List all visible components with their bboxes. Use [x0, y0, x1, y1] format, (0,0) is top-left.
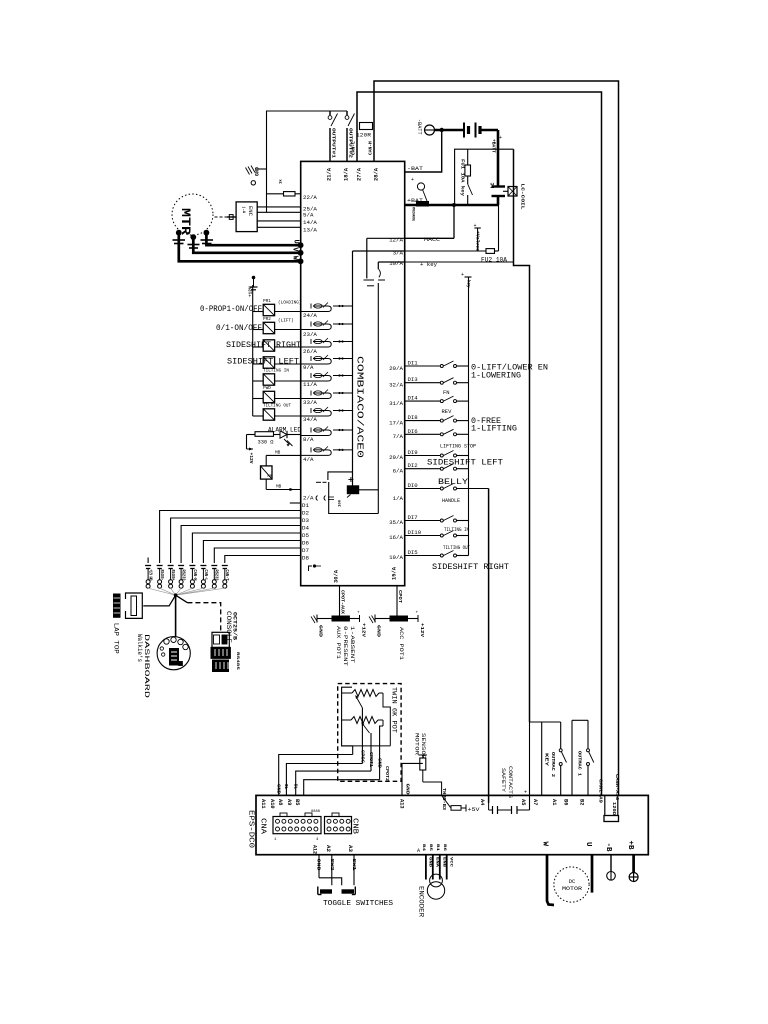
svg-text:+Valves: +Valves: [475, 231, 481, 251]
svg-text:-BATT: -BATT: [416, 119, 422, 135]
svg-text:ALARM LED: ALARM LED: [268, 427, 301, 434]
svg-text:-BAT: -BAT: [407, 165, 424, 172]
contactor LC main contacts: [492, 185, 506, 187]
svg-text:B6: B6: [442, 844, 446, 852]
svg-text:D8: D8: [302, 555, 309, 562]
svg-text:10/A: 10/A: [389, 260, 403, 267]
svg-text:D7: D7: [302, 547, 309, 554]
svg-text:23/A: 23/A: [303, 331, 317, 338]
svg-text:21/A: 21/A: [327, 168, 333, 181]
svg-text:1-ABSENT: 1-ABSENT: [349, 626, 355, 664]
wire +12V to alarm: [246, 435, 248, 450]
svg-text:A11: A11: [260, 799, 266, 809]
svg-text:DI3: DI3: [408, 377, 418, 383]
motor MTR: [172, 194, 213, 235]
svg-text:+: +: [411, 177, 414, 183]
potentiometer ACC POT1: [390, 616, 408, 621]
wire motor V phase: [193, 239, 300, 253]
switch input box row 1: [253, 311, 264, 313]
hook mark bottom left inside: [309, 566, 313, 571]
wire ENC stub to motor: [215, 216, 228, 218]
wire 15/A to ACC pot: [396, 586, 398, 616]
wire pot right links: [383, 693, 390, 746]
wire -BATT branch to -BAT pin: [405, 130, 442, 172]
svg-text:DI6: DI6: [408, 429, 418, 435]
svg-text:CONSOLE: CONSOLE: [225, 611, 232, 643]
ground GND upper: [255, 168, 267, 170]
svg-text:RS232: RS232: [181, 570, 186, 581]
wire internal loop lower: [329, 482, 379, 514]
svg-text:26/A: 26/A: [303, 348, 317, 355]
svg-text:19/A: 19/A: [389, 554, 403, 561]
svg-text:CPOT: CPOT: [397, 590, 401, 604]
svg-text:1k: 1k: [279, 179, 284, 184]
connector LAP TOP: [114, 594, 121, 617]
resistor 330 ohm: [247, 434, 256, 436]
resistor 120R CAN termination top: [360, 123, 373, 130]
svg-text:+12V GND: +12V GND: [148, 570, 153, 581]
wire D8 to bundle: [225, 556, 301, 564]
svg-text:W: W: [541, 842, 549, 847]
svg-text:12/A: 12/A: [389, 237, 403, 244]
wire +key switch common: [468, 277, 470, 556]
svg-text:DI2: DI2: [408, 463, 418, 469]
wire LC right edge / key feed: [514, 149, 530, 722]
svg-text:FN: FN: [443, 389, 450, 396]
switch input box row 5: [253, 380, 264, 382]
svg-text:24/A: 24/A: [303, 312, 317, 319]
svg-text:TILTING IN: TILTING IN: [263, 370, 289, 374]
wire DI0 handle to safety chain: [457, 488, 489, 490]
node +Valves: [477, 228, 479, 251]
svg-text:8888: 8888: [311, 810, 320, 814]
svg-text:GND: GND: [255, 167, 261, 176]
bundle fan wires to star: [148, 588, 176, 595]
svg-text:CNB: CNB: [351, 818, 359, 834]
wiper upper: [356, 696, 363, 709]
svg-text:120R: 120R: [356, 132, 372, 139]
svg-text:SW2: SW2: [329, 859, 335, 871]
wire motor U phase: [206, 235, 300, 245]
switch DI1: [405, 365, 441, 367]
svg-text:PR2: PR2: [263, 318, 271, 322]
svg-text:MOTOR: MOTOR: [562, 885, 583, 892]
svg-text:SAFETY: SAFETY: [500, 768, 506, 793]
switch DI7: [405, 520, 441, 522]
controller COMBIACO/ACE0 box: [301, 161, 405, 585]
svg-text:CPOT-AUX: CPOT-AUX: [340, 590, 344, 615]
svg-text:1/A: 1/A: [393, 495, 404, 502]
svg-text:A1: A1: [551, 799, 557, 805]
svg-text:1-LOWERING: 1-LOWERING: [471, 371, 521, 381]
svg-text:+5V: +5V: [468, 807, 481, 813]
svg-text:FWD: FWD: [263, 387, 271, 391]
svg-text:0-PROP1-ON/OFF: 0-PROP1-ON/OFF: [200, 304, 262, 314]
potentiometer lower 6K: [351, 717, 378, 724]
wire star to dashboard: [175, 595, 177, 637]
svg-text:D6: D6: [302, 540, 309, 547]
svg-text:VCC: VCC: [449, 857, 453, 868]
svg-text:OUTMAC 1: OUTMAC 1: [577, 751, 583, 776]
svg-text:4/A: 4/A: [303, 456, 314, 463]
svg-text:+12V: +12V: [248, 453, 254, 464]
svg-text:31/A: 31/A: [389, 400, 403, 407]
svg-text:MB: MB: [268, 475, 273, 479]
svg-text:0/1-ON/OFF: 0/1-ON/OFF: [216, 323, 262, 333]
contact OUTMAC 2: [560, 722, 562, 749]
coil LC-COIL: [503, 190, 508, 192]
connector CNB: [325, 817, 352, 834]
svg-text:A4: A4: [479, 799, 485, 805]
wire pin 5/A: [257, 211, 301, 213]
svg-text:CPOT1: CPOT1: [368, 752, 372, 768]
wire thermistor to B3: [423, 782, 442, 795]
svg-text:PR1: PR1: [263, 300, 271, 304]
svg-text:A7: A7: [532, 799, 538, 805]
svg-text:SW1: SW1: [351, 859, 357, 871]
svg-text:28/A: 28/A: [374, 168, 380, 181]
precharge resistor: [417, 202, 429, 207]
svg-text:+B: +B: [626, 841, 634, 851]
wire internal 12/A branch: [366, 238, 368, 278]
svg-text:SIDESHIFT RIGHT: SIDESHIFT RIGHT: [226, 340, 301, 350]
svg-text:D2: D2: [302, 510, 309, 517]
svg-text:D4: D4: [302, 525, 309, 532]
svg-text:OUTPUT#2: OUTPUT#2: [348, 128, 352, 159]
svg-text:Walkie's: Walkie's: [136, 634, 143, 662]
svg-text:330 Ω: 330 Ω: [258, 439, 275, 446]
svg-text:CANL-A9: CANL-A9: [598, 779, 604, 803]
svg-text:35/A: 35/A: [389, 519, 403, 526]
svg-text:A3: A3: [347, 845, 353, 852]
svg-text:FU1 10A key: FU1 10A key: [460, 159, 466, 196]
switch input box row 3: [253, 346, 264, 348]
resistor on pin 22/A: [267, 193, 284, 195]
switch DI8: [405, 420, 441, 422]
wire key bus to A5: [529, 722, 531, 810]
svg-text:SIDESHIFT LEFT: SIDESHIFT LEFT: [427, 458, 503, 468]
svg-text:CAN-H: CAN-H: [368, 141, 374, 155]
fuse FU2 10A: [486, 249, 495, 254]
encoder wires: [425, 855, 427, 880]
svg-text:GND: GND: [405, 784, 410, 796]
wire -BATT to battery: [435, 129, 465, 132]
svg-text:CNA: CNA: [259, 818, 267, 835]
svg-text:8/A: 8/A: [303, 436, 314, 443]
resistor 120R EPS termination: [604, 795, 606, 815]
svg-text:MB: MB: [275, 451, 281, 456]
svg-text:CAN-H: CAN-H: [192, 570, 197, 581]
shield chassis mark lower: [252, 276, 256, 280]
wire 30/A to AUX pot: [339, 586, 341, 616]
wire pot outputs: [352, 746, 354, 755]
svg-text:B5: B5: [428, 844, 432, 852]
svg-text:D5: D5: [302, 532, 309, 539]
switch input box row 4: [253, 363, 264, 365]
wire aux stub bundle pin 1: [147, 558, 149, 564]
toggle switch wiring: [318, 855, 320, 878]
svg-text:U: U: [292, 240, 300, 244]
switch DI4: [405, 400, 441, 402]
svg-text:+12V: +12V: [419, 623, 425, 637]
svg-text:30/A: 30/A: [334, 570, 340, 583]
wire battery positive down: [480, 129, 498, 132]
svg-text:DI7: DI7: [408, 515, 418, 521]
wire star to laptop: [143, 595, 175, 606]
svg-text:9/A: 9/A: [303, 364, 314, 371]
svg-text:GND: GND: [428, 857, 432, 868]
svg-text:DASHBOARD: DASHBOARD: [143, 634, 150, 699]
wire 3/A valves supply: [405, 250, 486, 252]
svg-text:5/A: 5/A: [303, 212, 314, 219]
svg-text:DC: DC: [569, 878, 576, 885]
switch box MB: [266, 454, 301, 456]
svg-text:20/A: 20/A: [389, 365, 403, 372]
wire +12V common left column: [252, 285, 254, 416]
node U V W terminals: [298, 242, 304, 248]
svg-text:REV: REV: [442, 408, 453, 415]
potentiometer AUX POT1: [332, 616, 349, 621]
wire +BAT line: [405, 204, 498, 207]
shield chassis mark upper: [251, 181, 255, 185]
wire output bus to GND: [267, 111, 348, 212]
svg-text:OUTMAC 2: OUTMAC 2: [550, 752, 556, 777]
connector -BATT: [425, 125, 435, 135]
svg-text:32/A: 32/A: [389, 382, 403, 389]
svg-text:33/A: 33/A: [303, 399, 317, 406]
svg-text:A5: A5: [520, 799, 526, 805]
svg-text:34/A: 34/A: [303, 416, 317, 423]
connector CONSOLE: [212, 632, 229, 647]
wire D1 stub: [290, 502, 301, 504]
svg-text:D3: D3: [302, 517, 309, 524]
svg-text:B6: B6: [563, 799, 569, 805]
wiper lower: [362, 723, 370, 734]
svg-text:16/A: 16/A: [389, 534, 403, 541]
svg-text:ENCODER: ENCODER: [418, 886, 425, 917]
svg-text:ACC POT1: ACC POT1: [398, 627, 404, 660]
contact on pin 21/A: [329, 111, 331, 115]
svg-text:MB: MB: [276, 485, 282, 490]
connector dashboard round: [157, 637, 190, 670]
svg-text:A2: A2: [325, 845, 331, 852]
controller EPS-DC0 box: [256, 795, 648, 854]
svg-text:1-LIFTING: 1-LIFTING: [471, 424, 517, 434]
wire internal key branch from 10/A: [377, 262, 379, 269]
svg-text:CPOT2: CPOT2: [384, 766, 388, 782]
svg-text:A9: A9: [286, 799, 292, 805]
svg-text:-B: -B: [604, 843, 612, 853]
svg-text:RS485: RS485: [235, 652, 239, 671]
wire CAN-H top bus: [374, 81, 619, 795]
svg-text:CAN-T: CAN-T: [224, 570, 229, 581]
svg-text:100: 100: [339, 499, 343, 507]
motor DC MOTOR: [554, 867, 589, 902]
wire LC box outline: [455, 149, 514, 205]
svg-text:2/A: 2/A: [303, 495, 314, 502]
relay coil internal 1/A driver: [347, 486, 358, 494]
wire pin 14/A: [257, 220, 301, 222]
svg-text:SIDESHIFT LEFT: SIDESHIFT LEFT: [227, 357, 299, 367]
connector CNA: [273, 817, 321, 834]
svg-text:+ key: + key: [420, 262, 437, 268]
svg-text:|-A: |-A: [241, 206, 246, 214]
svg-text:CPOC: CPOC: [360, 750, 364, 764]
svg-text:THMO-B3: THMO-B3: [441, 788, 446, 810]
wire internal valve supply bus from 3/A: [352, 251, 354, 486]
svg-text:22/A: 22/A: [303, 194, 317, 201]
svg-text:+: +: [461, 272, 464, 278]
thermistor motor sensor: [402, 762, 423, 764]
wire pot to EPS B-pins: [279, 755, 353, 796]
dashed box TWIN 6K POT: [338, 684, 401, 782]
precharge contact MP: [417, 183, 424, 190]
wire D6 to bundle: [203, 541, 300, 564]
contact on pin 18/A: [346, 111, 348, 115]
LED alarm: [280, 431, 287, 438]
wire CAN-L top bus: [357, 92, 602, 795]
svg-text:ENA: ENA: [435, 857, 439, 868]
svg-text:A10: A10: [269, 799, 275, 809]
internal input pull-up rows: [301, 306, 332, 312]
motor terminal dots: [176, 230, 182, 236]
svg-text:DL: DL: [293, 784, 297, 790]
svg-text:TWIN 6K POT: TWIN 6K POT: [391, 687, 398, 733]
svg-text:29/A: 29/A: [389, 454, 403, 461]
encoder ENC box: [236, 202, 257, 232]
svg-text:TOGGLE SWITCHES: TOGGLE SWITCHES: [323, 900, 394, 908]
svg-text:DI5: DI5: [408, 550, 418, 556]
svg-text:18/A: 18/A: [344, 168, 350, 181]
node bundle star: [174, 593, 178, 597]
wire star to console dashed: [176, 595, 188, 603]
svg-text:7/A: 7/A: [393, 433, 404, 440]
svg-text:DI9: DI9: [408, 450, 418, 456]
svg-text:A8: A8: [277, 799, 283, 805]
svg-text:14/A: 14/A: [303, 219, 317, 226]
svg-text:KEY: KEY: [544, 753, 550, 766]
switch DI10: [405, 535, 441, 537]
svg-text:TILTING IN: TILTING IN: [444, 526, 469, 533]
svg-text:B1: B1: [435, 844, 439, 852]
wire 10/A key line: [405, 261, 514, 263]
svg-text:+: +: [499, 135, 502, 141]
switch DI6: [405, 433, 441, 435]
svg-text:A12: A12: [312, 845, 318, 854]
svg-text:LC-COIL: LC-COIL: [520, 184, 526, 210]
svg-text:+: +: [416, 611, 419, 616]
potentiometer upper 6K: [352, 690, 379, 697]
wire pot inner outline: [342, 687, 353, 746]
svg-text:OL: OL: [283, 784, 287, 790]
wire handle chain to A4: [488, 489, 490, 804]
wire D2 to bundle: [160, 511, 301, 564]
svg-text:120Ω: 120Ω: [611, 802, 616, 815]
contact OUTMAC 1: [587, 720, 589, 748]
svg-text:13/A: 13/A: [303, 227, 317, 234]
encoder symbol: [430, 874, 443, 887]
wire D5 to bundle: [192, 533, 300, 563]
svg-text:RS485-: RS485-: [159, 570, 164, 581]
svg-text:COMBIACO/ACE0: COMBIACO/ACE0: [355, 356, 365, 458]
svg-text:+12V: +12V: [249, 286, 254, 297]
svg-text:15/A: 15/A: [392, 567, 398, 580]
svg-text:LIFTING STOP: LIFTING STOP: [440, 443, 476, 450]
svg-text:DI10: DI10: [408, 530, 422, 536]
svg-text:HANDLE: HANDLE: [442, 497, 461, 504]
wire pin 25/A: [257, 206, 301, 208]
svg-text:11/A: 11/A: [303, 381, 317, 388]
resistor to +5V inside EPS: [442, 795, 451, 807]
wire D4 to bundle: [181, 526, 301, 564]
svg-text:+: +: [357, 611, 360, 616]
svg-text:MOTOR: MOTOR: [414, 733, 420, 755]
svg-text:B2: B2: [579, 799, 585, 805]
svg-text:ENB: ENB: [442, 857, 446, 868]
svg-text:EPS-DC0: EPS-DC0: [247, 810, 255, 848]
wire A13 GND: [401, 763, 403, 795]
svg-text:(LIFT): (LIFT): [278, 319, 294, 324]
svg-text:DI0: DI0: [408, 483, 418, 489]
wire B6 loop: [571, 720, 573, 795]
svg-text:27/A: 27/A: [357, 168, 363, 181]
battery BAT1: [463, 123, 465, 138]
svg-text:key: key: [466, 280, 471, 288]
toggle switches bracket: [317, 887, 319, 895]
switch DI9: [405, 455, 441, 457]
switch DI3: [405, 382, 441, 384]
svg-text:GND: GND: [316, 859, 322, 871]
svg-text:CAN-L: CAN-L: [203, 570, 208, 581]
svg-text:CONTACTS: CONTACTS: [507, 766, 513, 798]
safety contacts inside EPS: [492, 806, 494, 814]
svg-text:+BATT: +BATT: [491, 139, 497, 153]
svg-text:D1: D1: [302, 502, 309, 509]
switch input box row 7: [253, 415, 264, 417]
svg-text:RS485+: RS485+: [170, 570, 175, 581]
svg-text:GND: GND: [377, 758, 381, 769]
wire D7 to bundle: [214, 548, 300, 563]
wire D3 to bundle: [171, 518, 301, 563]
svg-text:TILTING OUT: TILTING OUT: [443, 544, 471, 551]
svg-text:0-PRESENT: 0-PRESENT: [342, 626, 348, 667]
svg-text:B5: B5: [294, 799, 300, 805]
bundle connector pins: [145, 565, 151, 567]
svg-text:DI8: DI8: [408, 415, 418, 421]
wire key branch to A7 and OUTMAC2: [530, 721, 561, 723]
switch input box row 2: [253, 329, 264, 331]
svg-text:CANH-A14: CANH-A14: [614, 774, 620, 800]
svg-text:U: U: [584, 842, 592, 847]
svg-text:GND: GND: [318, 625, 324, 637]
svg-text:OCT25/B: OCT25/B: [232, 612, 238, 640]
fuse FU1 10A key: [467, 149, 469, 165]
svg-text:PRECHARGE: PRECHARGE: [411, 207, 415, 221]
svg-text:SIDESHIFT RIGHT: SIDESHIFT RIGHT: [432, 562, 509, 572]
svg-text:GND: GND: [276, 784, 280, 795]
svg-text:+: +: [474, 223, 477, 229]
svg-text:MACC: MACC: [424, 237, 440, 243]
svg-text:17/A: 17/A: [389, 420, 403, 427]
wire pin 13/A: [257, 226, 301, 228]
svg-text:GND: GND: [376, 625, 382, 637]
svg-text:RS232: RS232: [214, 570, 219, 581]
svg-text:DI4: DI4: [408, 396, 418, 402]
svg-text:(LOADING): (LOADING): [278, 301, 301, 306]
motor lead U: [591, 855, 594, 893]
switch input box row 6: [253, 398, 264, 400]
switch DI2: [405, 468, 441, 470]
